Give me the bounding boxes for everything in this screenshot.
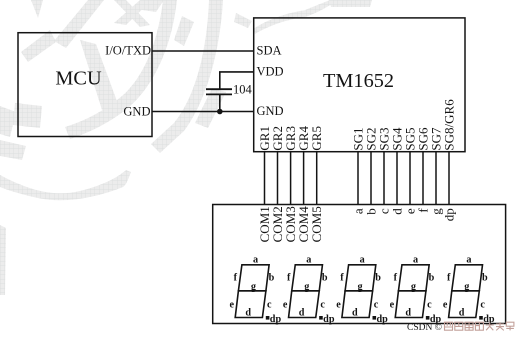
pin GR3 xyxy=(283,126,298,204)
pin GR2 xyxy=(270,126,285,204)
pin SG7 xyxy=(428,127,443,205)
7-segment digit 4 xyxy=(390,254,442,325)
capacitor 104 xyxy=(206,83,253,112)
wire I/O/TXD to SDA xyxy=(152,50,254,52)
7-segment digit 2 xyxy=(283,254,335,325)
pin SG1 xyxy=(350,127,365,204)
pin SG3 xyxy=(376,127,391,204)
TM1652 IC box xyxy=(254,18,465,152)
display module box xyxy=(213,205,506,324)
pin SG5 xyxy=(402,127,417,204)
pin SG2 xyxy=(363,127,378,204)
pin GR4 xyxy=(296,126,311,205)
pin GR1 xyxy=(257,126,272,204)
svg-text:CSDN ©: CSDN © xyxy=(407,322,442,333)
7-segment digit 3 xyxy=(336,254,388,325)
7-segment digit 5 xyxy=(443,254,495,325)
pin SG4 xyxy=(389,127,404,205)
pin SG8/GR6 xyxy=(441,99,456,205)
wire GND net xyxy=(152,111,254,113)
pin GR5 xyxy=(309,126,324,204)
MCU block box xyxy=(18,33,152,137)
pin SG6 xyxy=(415,127,430,205)
junction dot on GND xyxy=(217,109,223,115)
7-segment digit 1 xyxy=(230,254,282,325)
wire VDD branch xyxy=(220,72,254,89)
